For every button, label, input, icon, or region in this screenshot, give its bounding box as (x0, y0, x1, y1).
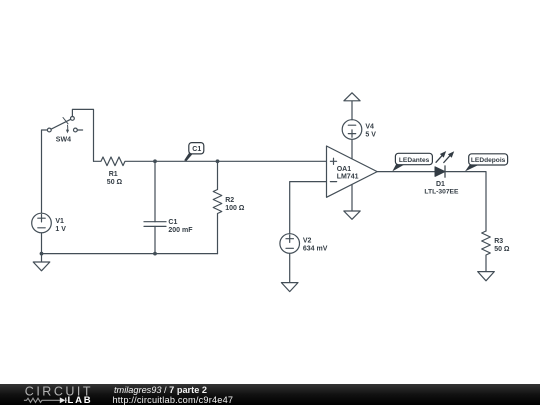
wire output (377, 171, 435, 173)
ground (478, 272, 495, 281)
svg-text:200 mF: 200 mF (168, 227, 193, 234)
svg-text:LAB: LAB (68, 395, 93, 405)
ground (33, 254, 50, 271)
svg-text:50 Ω: 50 Ω (494, 246, 510, 253)
wire (289, 253, 291, 282)
wire (445, 172, 486, 231)
capacitor C1 (144, 161, 193, 253)
wire inverting input (290, 182, 327, 234)
footer bar (0, 384, 540, 405)
footer credit text (114, 385, 207, 395)
svg-text:C1: C1 (168, 219, 177, 226)
svg-text:LEDdepois: LEDdepois (471, 157, 506, 164)
svg-text:1 V: 1 V (55, 226, 66, 233)
node junction (153, 159, 157, 163)
wire (155, 160, 327, 162)
svg-text:R1: R1 (109, 171, 118, 178)
node junction (216, 159, 220, 163)
svg-text:C1: C1 (192, 146, 201, 153)
power rail arrow up (344, 93, 360, 101)
voltage source V2 (280, 234, 328, 254)
svg-text:R3: R3 (494, 238, 503, 245)
flag node LEDdepois (465, 154, 508, 172)
voltage source V4 (342, 120, 376, 140)
diode D1 LED (424, 151, 459, 196)
ground (281, 283, 298, 292)
wire bottom rail (42, 253, 218, 255)
svg-text:V4: V4 (365, 123, 374, 130)
op-amp OA1 (327, 146, 378, 197)
svg-text:OA1: OA1 (337, 166, 352, 173)
wire (351, 185, 353, 212)
node junction (40, 252, 44, 256)
svg-text:SW4: SW4 (56, 137, 71, 144)
node junction (153, 252, 157, 256)
resistor R3 (482, 231, 510, 272)
svg-text:LM741: LM741 (337, 173, 359, 180)
svg-text:100 Ω: 100 Ω (225, 205, 245, 212)
wire (72, 109, 93, 161)
svg-text:V2: V2 (303, 238, 312, 245)
svg-text:D1: D1 (436, 181, 445, 188)
wire (351, 139, 353, 158)
svg-text:LTL-307EE: LTL-307EE (424, 189, 459, 196)
resistor R2 (213, 161, 245, 253)
wire (42, 130, 48, 213)
svg-text:V1: V1 (55, 218, 64, 225)
svg-text:LEDantes: LEDantes (399, 157, 430, 164)
flag node C1 (184, 143, 204, 162)
wire (351, 101, 353, 120)
svg-text:50 Ω: 50 Ω (107, 179, 123, 186)
svg-text:5 V: 5 V (365, 131, 376, 138)
CircuitLab logo (0, 384, 110, 405)
voltage source V1 (32, 213, 67, 253)
svg-text:634 mV: 634 mV (303, 246, 328, 253)
resistor R1 (94, 157, 156, 186)
flag node LEDantes (392, 153, 432, 171)
switch SW4 (47, 117, 82, 144)
svg-text:R2: R2 (225, 197, 234, 204)
power rail arrow down (344, 211, 360, 219)
